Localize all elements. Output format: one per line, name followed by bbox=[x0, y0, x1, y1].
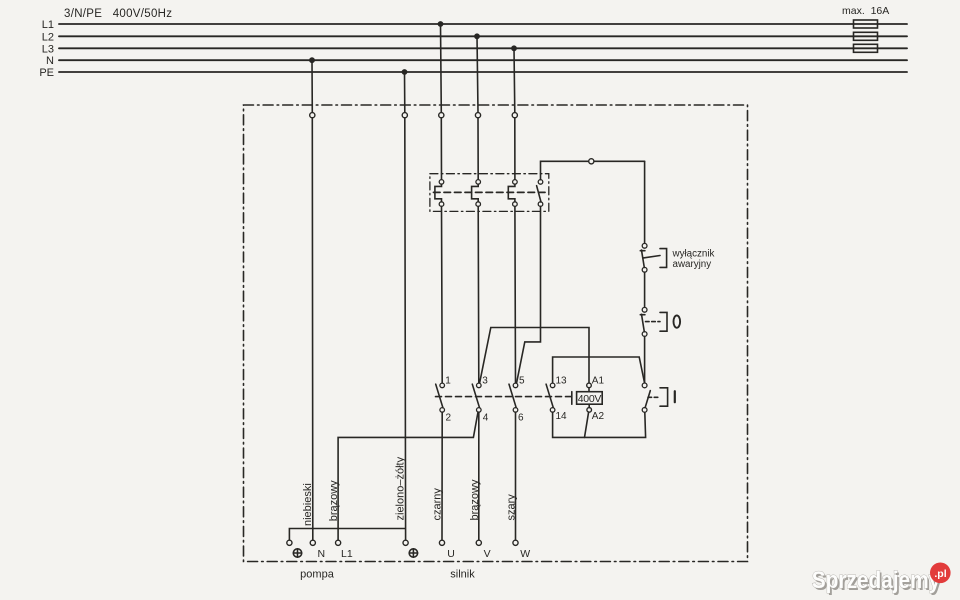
svg-text:L1: L1 bbox=[341, 548, 353, 560]
wire earth jumper pump to PE bbox=[289, 529, 405, 541]
wire rail L2 bbox=[59, 35, 907, 37]
auxiliary contact 13-14 bbox=[546, 383, 555, 412]
wire L3 drop from rail to connector bbox=[513, 48, 516, 112]
connector terminal on L1 drop bbox=[439, 113, 444, 118]
fuse F3 on L3 bbox=[854, 44, 878, 52]
svg-text:13: 13 bbox=[556, 376, 568, 387]
svg-text:niebieski: niebieski bbox=[302, 483, 314, 526]
svg-text:max. 16A: max. 16A bbox=[842, 5, 889, 17]
switch contact 5-6 bbox=[509, 383, 518, 412]
wire L3 to contactor bbox=[514, 118, 516, 180]
svg-text:zielono–żółty: zielono–żółty bbox=[395, 456, 407, 520]
svg-text:U: U bbox=[447, 548, 455, 560]
connector terminal on L2 drop bbox=[475, 113, 480, 118]
svg-text:6: 6 bbox=[518, 413, 524, 424]
wire coil to A2 bbox=[588, 404, 590, 407]
svg-text:A2: A2 bbox=[592, 411, 605, 422]
svg-text:3/N/PE 400V/50Hz: 3/N/PE 400V/50Hz bbox=[64, 8, 172, 20]
svg-text:2: 2 bbox=[446, 413, 452, 424]
wire rail L3 bbox=[59, 47, 907, 49]
contactor K1 auxiliary contact bbox=[537, 180, 543, 207]
svg-text:.pl: .pl bbox=[934, 568, 946, 580]
svg-text:L1: L1 bbox=[42, 19, 54, 31]
wire N vertical to pump terminal bbox=[311, 118, 314, 540]
wire rail L1 bbox=[59, 23, 907, 25]
connector terminal on N drop bbox=[310, 113, 315, 118]
wire contactor aux top to control chain bbox=[541, 161, 645, 179]
emergency stop switch NC bbox=[640, 243, 666, 272]
switch contact 1-2 bbox=[436, 383, 445, 412]
svg-text:szary: szary bbox=[505, 494, 517, 521]
svg-text:W: W bbox=[520, 548, 530, 560]
terminal pump earth bbox=[287, 540, 292, 545]
wire PE vertical to earth terminal bbox=[404, 118, 407, 540]
svg-text:14: 14 bbox=[556, 411, 568, 422]
wire rail PE bbox=[59, 71, 907, 73]
wire contact 4 to motor terminal V bbox=[478, 412, 480, 540]
label I bbox=[674, 391, 676, 402]
svg-text:L2: L2 bbox=[42, 31, 54, 43]
wire PE drop from rail to connector bbox=[404, 72, 406, 113]
wire contact 13 to start button top bbox=[553, 357, 645, 383]
svg-text:pompa: pompa bbox=[300, 568, 335, 580]
fuse F1 on L1 bbox=[854, 20, 878, 28]
svg-text:4: 4 bbox=[483, 413, 489, 424]
earth symbol pump bbox=[293, 549, 301, 557]
switch contact 3-4 bbox=[472, 383, 481, 412]
contactor K1 mechanical linkage dashed bbox=[434, 191, 547, 193]
wire L1 drop from rail to connector bbox=[440, 24, 443, 113]
svg-text:A1: A1 bbox=[592, 376, 605, 387]
wire contactor pole1 to switch contact 1 bbox=[441, 206, 444, 383]
fuse F2 on L2 bbox=[854, 32, 878, 40]
connector terminal on PE drop bbox=[402, 113, 407, 118]
wire A1 to coil bbox=[588, 388, 590, 392]
junction tap on L2 bbox=[474, 33, 480, 39]
wire switch contact 3 to coil A1 bbox=[480, 328, 589, 384]
junction tap on L3 bbox=[511, 45, 517, 51]
coil terminal A1 bbox=[587, 383, 592, 388]
terminal motor U bbox=[439, 540, 444, 545]
wire contact 2 to motor terminal U bbox=[441, 412, 443, 540]
wire contactor pole2 to switch contact 3 bbox=[477, 206, 480, 383]
svg-text:1: 1 bbox=[445, 376, 451, 387]
svg-text:Sprzedajemy: Sprzedajemy bbox=[812, 566, 941, 594]
svg-text:silnik: silnik bbox=[450, 568, 475, 580]
wire emergency to stop button bbox=[644, 272, 646, 307]
coil armature bar bbox=[571, 392, 573, 405]
terminal pump N bbox=[310, 540, 315, 545]
junction tap on N bbox=[309, 57, 315, 63]
contactor K1 main contact pole 2 bbox=[472, 180, 481, 207]
wire contact 4 branch to pump L1 bbox=[338, 413, 478, 541]
connector terminal on control wire bbox=[589, 159, 594, 164]
earth symbol motor bbox=[409, 549, 417, 557]
mechanical linkage dashed to coil bbox=[436, 396, 572, 398]
svg-text:brązowy: brązowy bbox=[469, 479, 481, 520]
junction tap on L1 bbox=[438, 21, 444, 27]
svg-text:N: N bbox=[318, 548, 326, 560]
svg-text:czarny: czarny bbox=[432, 488, 444, 521]
wire contact 6 to motor terminal W bbox=[515, 412, 517, 540]
contactor K1 main contact pole 3 bbox=[508, 180, 517, 207]
wire N drop from rail to connector bbox=[311, 60, 313, 112]
wire contactor pole3 to switch contact 5 bbox=[514, 206, 517, 383]
connector terminal on L3 drop bbox=[512, 113, 517, 118]
wire L2 drop from rail to connector bbox=[477, 36, 478, 112]
wire contactor aux bottom to switch contact 5 bbox=[517, 206, 541, 383]
junction tap on PE bbox=[402, 69, 408, 75]
stop button 0 NC bbox=[640, 307, 667, 336]
start button I NO bbox=[642, 383, 667, 412]
contactor K1 main contact pole 1 bbox=[435, 180, 444, 207]
svg-text:V: V bbox=[484, 548, 491, 560]
wire rail N bbox=[59, 59, 907, 61]
svg-text:L3: L3 bbox=[42, 43, 54, 55]
wire contact 14 to bottom control rail bbox=[553, 412, 646, 437]
svg-text:wyłącznik: wyłącznik bbox=[672, 249, 715, 260]
svg-text:3: 3 bbox=[482, 376, 488, 387]
svg-text:N: N bbox=[46, 55, 54, 67]
svg-text:awaryjny: awaryjny bbox=[673, 259, 712, 270]
svg-text:brązowy: brązowy bbox=[328, 480, 340, 521]
watermark Sprzedajemy.pl bbox=[812, 563, 951, 596]
enclosure dash-dot border bbox=[244, 105, 748, 562]
wire stop to start button bbox=[644, 336, 646, 383]
terminal motor W bbox=[513, 540, 518, 545]
svg-text:5: 5 bbox=[519, 376, 525, 387]
terminal motor V bbox=[476, 540, 481, 545]
wire control chain down to emergency switch bbox=[644, 161, 646, 243]
terminal pump L1 bbox=[336, 540, 341, 545]
wire L2 to contactor bbox=[477, 118, 479, 180]
wire A2 to bottom control rail bbox=[585, 412, 589, 437]
coil K1 400V box bbox=[577, 392, 603, 405]
terminal motor earth bbox=[403, 540, 408, 545]
contactor K1 dash-dot outline bbox=[430, 174, 549, 212]
svg-text:PE: PE bbox=[39, 67, 54, 79]
coil terminal A2 bbox=[587, 408, 592, 413]
label 0 bbox=[674, 315, 681, 327]
wire L1 to contactor bbox=[440, 118, 442, 180]
svg-text:400V: 400V bbox=[578, 393, 602, 405]
